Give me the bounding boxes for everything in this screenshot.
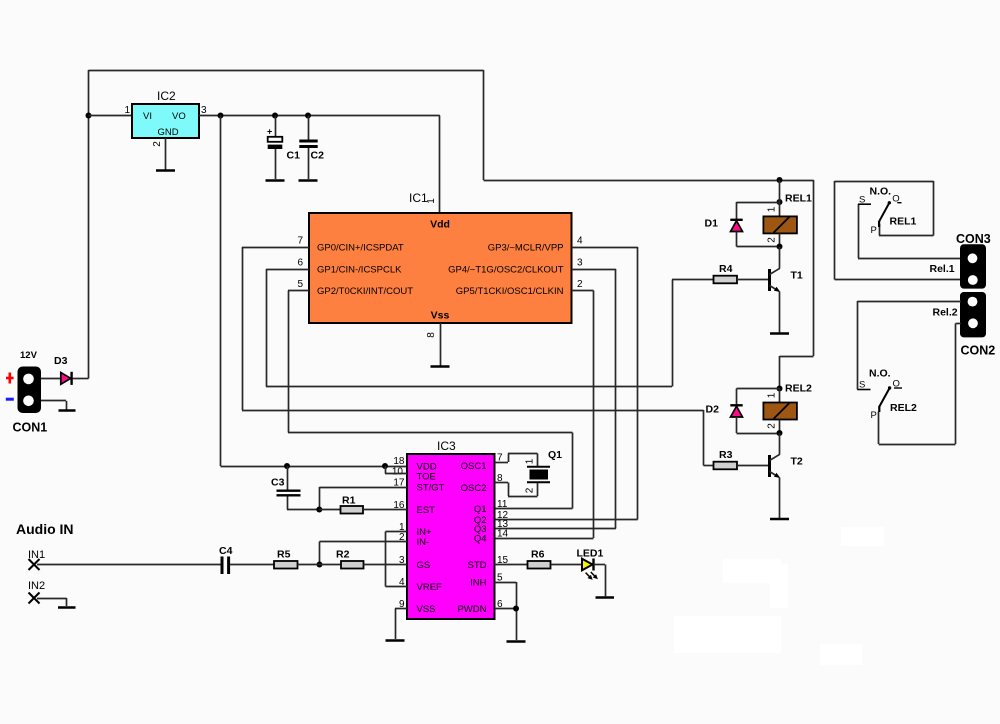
svg-text:1: 1 (124, 105, 130, 116)
svg-text:1: 1 (767, 206, 778, 212)
erased white patch 3 (820, 644, 862, 665)
wire INH/PWDN to ground (495, 582, 517, 640)
ground CON1 minus (59, 409, 76, 412)
pin 6 label IC1 (297, 258, 303, 269)
svg-text:OSC1: OSC1 (461, 461, 487, 472)
svg-text:D1: D1 (705, 218, 719, 230)
svg-text:EST: EST (417, 505, 436, 516)
open terminal X IN2 (29, 593, 40, 604)
pin 1 label IC3 (399, 522, 405, 533)
svg-text:REL2: REL2 (890, 402, 917, 414)
pin 5 label IC1 (297, 279, 303, 290)
svg-text:Q1: Q1 (474, 504, 487, 515)
pin 3 label IC3 (399, 555, 405, 566)
connector CON2 (960, 292, 986, 337)
pin 2 label IC1 (577, 279, 583, 290)
erased white patch 2 (770, 564, 788, 608)
svg-text:12V: 12V (20, 350, 38, 361)
svg-text:C3: C3 (271, 477, 285, 489)
svg-text:VI: VI (143, 111, 152, 122)
wire REL1 contact loop P to CON3 pin2 (835, 181, 962, 280)
wire LED1 to ground (594, 565, 606, 597)
wire REL2 contact S to CON2 pin1 (857, 301, 961, 390)
svg-text:GP1/CIN-/ICSPCLK: GP1/CIN-/ICSPCLK (317, 265, 402, 276)
wire top rail horizontal (89, 70, 484, 72)
wire GP0 (pin7) route to R3/T2 base (242, 247, 714, 466)
node junction C2 (305, 113, 311, 119)
svg-text:11: 11 (497, 499, 508, 510)
svg-text:Rel.2: Rel.2 (933, 307, 958, 319)
svg-text:CON1: CON1 (13, 421, 48, 435)
svg-text:N.O.: N.O. (869, 368, 891, 380)
pin 8 label IC1 Vss (rotated) (426, 332, 437, 338)
svg-text:R4: R4 (719, 263, 733, 275)
svg-text:GP3/~MCLR/VPP: GP3/~MCLR/VPP (488, 243, 564, 254)
wire IC2 GND pin down (165, 138, 167, 170)
svg-text:R1: R1 (342, 495, 356, 507)
pin 3 label IC2 (201, 105, 207, 116)
pin 18 label IC3 (393, 456, 405, 467)
svg-text:1: 1 (426, 198, 437, 204)
wire IN- to audio node (320, 542, 408, 565)
svg-text:2: 2 (152, 141, 163, 147)
svg-text:2: 2 (577, 279, 583, 290)
diode D2 flyback (706, 389, 780, 434)
node junction IC3 VDD / TOE (382, 463, 388, 469)
svg-text:R3: R3 (719, 449, 733, 461)
svg-text:Rel.1: Rel.1 (930, 263, 955, 275)
svg-text:2: 2 (767, 423, 778, 429)
svg-text:GP5/T1CKI/OSC1/CLKIN: GP5/T1CKI/OSC1/CLKIN (456, 286, 564, 297)
wire IN+ to VREF tie (386, 532, 408, 587)
svg-text:Audio IN: Audio IN (16, 521, 74, 537)
node junction R1/ST-GT/C3 (316, 507, 322, 513)
svg-text:Q4: Q4 (474, 534, 487, 545)
pin 13 label IC3 (497, 519, 509, 530)
relay coil REL1 (763, 180, 797, 247)
node junction T2 collector / D2 (777, 430, 783, 436)
svg-text:10: 10 (392, 467, 404, 478)
label Rel.2 (933, 307, 958, 319)
erased white patch 1 (841, 527, 884, 546)
wire IC3 VSS to ground (395, 609, 407, 640)
svg-text:IC2: IC2 (157, 89, 176, 103)
svg-text:4: 4 (577, 236, 583, 247)
svg-text:2: 2 (767, 237, 778, 243)
wire 5V down-feed to IC3 VDD (221, 116, 408, 467)
plus terminal mark (6, 373, 14, 384)
transistor T1 NPN (770, 247, 803, 333)
switch contact REL2 N.O. (857, 368, 917, 422)
svg-text:D3: D3 (54, 355, 68, 367)
capacitor C4 (219, 545, 233, 574)
svg-text:C2: C2 (311, 150, 325, 162)
svg-text:D2: D2 (706, 404, 720, 416)
resistor R1 (319, 495, 407, 514)
svg-text:GP0/CIN+/ICSPDAT: GP0/CIN+/ICSPDAT (317, 243, 404, 254)
pin 7 label IC3 (497, 453, 503, 464)
capacitor C3 (271, 466, 319, 510)
svg-text:7: 7 (297, 236, 303, 247)
wire IC1 Vss to ground (440, 323, 442, 366)
resistor R6 (528, 549, 583, 569)
resistor R3 (714, 449, 770, 469)
svg-text:GS: GS (417, 560, 431, 571)
svg-text:GP4/~T1G/OSC2/CLKOUT: GP4/~T1G/OSC2/CLKOUT (448, 265, 564, 276)
wire REL2 contact P to CON2 pin2 (879, 324, 962, 445)
svg-text:VO: VO (172, 111, 186, 122)
label IN1 (28, 549, 45, 561)
pin 16 label IC3 (393, 500, 405, 511)
pin 4 label IC1 (577, 236, 583, 247)
svg-text:OSC2: OSC2 (461, 483, 487, 494)
capacitor C1 electrolytic (267, 116, 300, 180)
svg-text:1: 1 (767, 392, 778, 398)
svg-text:18: 18 (393, 456, 405, 467)
wire REL1 contact S to CON3 pin1 (858, 204, 961, 259)
resistor R4 (714, 263, 770, 283)
pin 6 label IC3 (497, 599, 503, 610)
wire TOE tie to VDD (385, 466, 407, 474)
svg-text:+: + (267, 127, 272, 137)
svg-text:CON3: CON3 (956, 232, 991, 246)
node junction C1 (272, 113, 278, 119)
svg-text:P: P (871, 225, 877, 236)
svg-text:IN2: IN2 (28, 580, 45, 592)
label REL1 coil (785, 193, 812, 205)
ground LED1 (596, 596, 615, 599)
IC2 voltage regulator (132, 89, 199, 138)
svg-text:C1: C1 (287, 150, 301, 162)
pin 3 label IC1 (577, 258, 583, 269)
svg-text:N.O.: N.O. (870, 186, 892, 198)
pin 14 label IC3 (497, 529, 509, 540)
svg-text:Vss: Vss (431, 310, 450, 322)
pin 2 label crystal (rotated) (525, 487, 536, 493)
wire top rail drop to relay rail (483, 70, 485, 180)
wire 12V raw vertical from D3 up to top rail (88, 70, 90, 379)
svg-text:STD: STD (468, 560, 487, 571)
svg-text:R6: R6 (531, 549, 545, 561)
svg-text:Vdd: Vdd (430, 219, 450, 231)
svg-text:14: 14 (497, 529, 509, 540)
pin 1 label REL2 (rotated) (767, 392, 778, 398)
pin 12 label IC3 (497, 510, 509, 521)
minus terminal mark (6, 398, 14, 401)
label Audio IN (16, 521, 74, 537)
resistor R5 (274, 549, 320, 569)
ground IC3 VSS (386, 639, 405, 642)
connector CON3 (960, 244, 986, 288)
open terminal X IN1 (29, 559, 40, 570)
pin 10 label IC3 (392, 467, 404, 478)
svg-text:3: 3 (201, 105, 207, 116)
pin 17 label IC3 (393, 478, 405, 489)
relay coil REL2 (763, 389, 797, 434)
pin 15 label IC3 (497, 555, 509, 566)
node junction IC3 VDD / C3 (284, 463, 290, 469)
wire IC2 input stub pin 1 (89, 115, 133, 117)
svg-text:IC3: IC3 (437, 439, 456, 453)
connector CON1 (13, 367, 48, 435)
svg-text:REL1: REL1 (890, 216, 917, 228)
op-amp/mcu IC1 PIC (309, 191, 572, 323)
wire ST/GT to R1 node (319, 487, 407, 510)
diode D1 flyback (705, 202, 780, 247)
pin 11 label IC3 (497, 499, 508, 510)
pin 2 label IC2 (rotated) (152, 141, 163, 147)
LED1 (577, 548, 604, 580)
pin 2 label REL1 (rotated) (767, 237, 778, 243)
svg-text:C4: C4 (219, 545, 233, 557)
svg-text:8: 8 (426, 332, 437, 338)
node junction relay rail REL1 (777, 177, 783, 183)
pin 1 label REL1 (rotated) (767, 206, 778, 212)
wire 5V rail from IC2 VO to IC1 Vdd (199, 116, 440, 214)
svg-text:REL1: REL1 (785, 193, 812, 205)
pin 2 label REL2 (rotated) (767, 423, 778, 429)
svg-text:GND: GND (158, 127, 179, 138)
svg-text:P: P (871, 410, 877, 421)
diode D3 (54, 355, 72, 385)
ground T1 emitter (770, 332, 789, 335)
resistor R2 (320, 549, 408, 569)
label Rel.1 (930, 263, 955, 275)
svg-text:IN1: IN1 (28, 549, 45, 561)
pin 7 label IC1 (297, 236, 303, 247)
ground IC2 (156, 169, 175, 172)
wire CON1 minus to ground (41, 401, 67, 410)
ground INH/PWDN (507, 640, 526, 643)
svg-text:R5: R5 (277, 549, 291, 561)
svg-text:T1: T1 (791, 270, 803, 282)
wire C4 to R5 (230, 564, 274, 566)
pin 4 label IC3 (399, 577, 405, 588)
ground C1 (266, 179, 285, 182)
node junction 12V input at IC2 VI (86, 113, 92, 119)
wire relay rail right drop (813, 180, 815, 356)
wire GP1 (pin6) route to R4/T1 base (266, 269, 714, 387)
node junction D2 top (777, 386, 783, 392)
wire relay rail horizontal (484, 180, 814, 182)
node junction 5V rail to IC3 VDD (218, 113, 224, 119)
wire D3 cathode to riser (73, 378, 89, 380)
label IN2 (28, 580, 45, 592)
svg-text:5: 5 (297, 279, 303, 290)
ground T2 emitter (770, 518, 789, 521)
svg-text:VSS: VSS (417, 604, 436, 615)
svg-text:IN-: IN- (417, 537, 430, 548)
switch contact REL1 N.O. (858, 186, 917, 237)
label REL2 coil (785, 383, 812, 395)
ground IN2 (58, 606, 76, 609)
transistor T2 NPN (770, 433, 803, 518)
wire CON1 plus to D3 (41, 378, 61, 380)
label 12V (20, 350, 38, 361)
svg-text:GP2/T0CKI/INT/COUT: GP2/T0CKI/INT/COUT (317, 286, 413, 297)
pin 1 label crystal (rotated) (525, 458, 536, 464)
pin 5 label IC3 (497, 573, 503, 584)
node junction T1 collector / D1 (777, 244, 783, 250)
pin 1 label IC2 (124, 105, 130, 116)
pin 9 label IC3 (399, 599, 405, 610)
svg-text:ST/GT: ST/GT (417, 483, 445, 494)
crystal Q1 (495, 449, 563, 497)
ground IC1 Vss (431, 365, 450, 368)
erased white patch 5 (674, 616, 781, 653)
wire GP3 (pin4) route to IC3 Q2 (495, 247, 638, 520)
svg-text:1: 1 (525, 458, 536, 464)
pin 1 label IC1 Vdd (rotated) (426, 198, 437, 204)
wire relay rail jog to REL2 (780, 356, 814, 389)
wire IN2 to ground (37, 598, 67, 606)
svg-text:LED1: LED1 (577, 548, 604, 560)
wire GP5 (pin2) route to IC3 Q4 (495, 291, 594, 539)
svg-text:TOE: TOE (417, 472, 436, 483)
svg-text:VREF: VREF (417, 582, 443, 593)
node junction D1 top (777, 199, 783, 205)
DTMF decoder IC3 (407, 439, 495, 619)
capacitor C2 (299, 116, 324, 180)
svg-text:6: 6 (297, 258, 303, 269)
svg-text:T2: T2 (791, 456, 803, 468)
svg-text:CON2: CON2 (961, 344, 996, 358)
wire STD to R6 (495, 564, 528, 566)
erased white patch 4 (723, 559, 781, 583)
label CON3 (956, 232, 991, 246)
svg-text:Q1: Q1 (548, 449, 562, 461)
svg-text:2: 2 (525, 487, 536, 493)
pin 8 label IC3 (497, 473, 503, 484)
node junction audio R5/R2 (317, 562, 323, 568)
wire IN1 to C4 (37, 564, 221, 566)
svg-text:R2: R2 (336, 549, 350, 561)
node junction INH/PWDN (513, 606, 519, 612)
wire GP2 (pin5) route to IC3 Q1 (288, 291, 573, 509)
svg-text:PWDN: PWDN (457, 604, 486, 615)
wire GP4 (pin3) route to IC3 Q3 (495, 269, 616, 529)
ground C2 (299, 179, 318, 182)
pin 2 label IC3 (399, 532, 405, 543)
label CON2 (961, 344, 996, 358)
svg-text:3: 3 (577, 258, 583, 269)
svg-text:REL2: REL2 (785, 383, 812, 395)
svg-text:INH: INH (470, 578, 487, 589)
